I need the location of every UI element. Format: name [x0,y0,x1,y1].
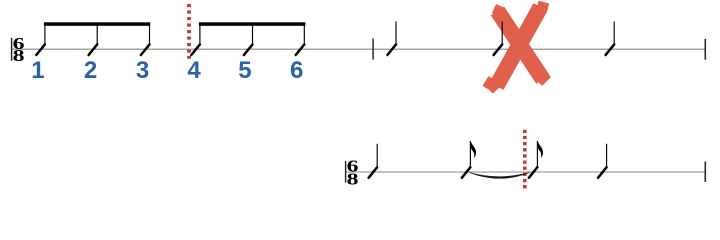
crossed-out note slash [494,44,503,55]
note 3 stem [149,25,151,44]
note 1 stem [44,25,46,44]
tied eighth note 2 stem [536,141,538,167]
count number 4 [187,57,201,84]
note 4 stem [199,25,201,44]
svg-text:3: 3 [136,57,149,84]
note 6 slash [296,44,305,55]
red dashed division line (top) [187,4,191,59]
bottom system start barline [345,161,347,183]
top staff line [11,48,706,50]
crossed-out note stem [501,22,503,45]
top system end barline [704,39,706,60]
svg-text:8: 8 [347,170,359,188]
bottom staff line [345,171,706,173]
quarter note (measure 2, beat 3) stem [613,22,615,45]
svg-text:2: 2 [84,57,97,84]
quarter note (measure 2, beat 1) stem [395,22,397,45]
note 2 slash [89,44,98,55]
quarter note (measure 2, beat 1) slash [387,44,396,55]
bottom quarter note 2 stem [606,144,608,167]
tie between eighth notes [469,173,529,179]
bottom quarter note 2 slash [598,167,607,178]
beam over notes 1-3 [44,22,150,26]
bottom system end barline [704,162,706,183]
note 5 stem [252,25,254,44]
tied eighth note 1 flag [470,141,475,157]
note 2 stem [96,25,98,44]
note 3 slash [141,44,150,55]
count number 3 [136,57,149,84]
svg-text:1: 1 [31,57,44,84]
note 1 slash [36,44,45,55]
tied eighth note 2 flag [537,141,542,157]
note 5 slash [244,44,253,55]
count number 1 [31,57,44,84]
svg-text:4: 4 [187,57,201,84]
count number 6 [290,57,303,84]
count number 5 [238,57,251,84]
red dashed division line (bottom) [523,130,527,189]
count number 2 [84,57,97,84]
top system start barline [11,38,13,61]
tied eighth note 1 stem [469,141,471,167]
svg-text:8: 8 [13,47,25,65]
svg-text:5: 5 [238,57,251,84]
svg-text:6: 6 [290,57,303,84]
beam over notes 4-6 [199,22,306,26]
tied eighth note 1 slash [462,167,471,178]
note 4 slash [191,44,200,55]
bottom quarter note 1 slash [369,167,378,178]
note 6 stem [303,25,305,44]
red X mark [486,5,549,91]
bottom quarter note 1 stem [376,144,378,167]
tied eighth note 2 slash [529,167,538,178]
bottom time signature 6/8 [347,158,359,189]
top time signature 6/8 [13,35,25,65]
barline between measures (top) [372,39,374,60]
quarter note (measure 2, beat 3) slash [606,44,615,55]
